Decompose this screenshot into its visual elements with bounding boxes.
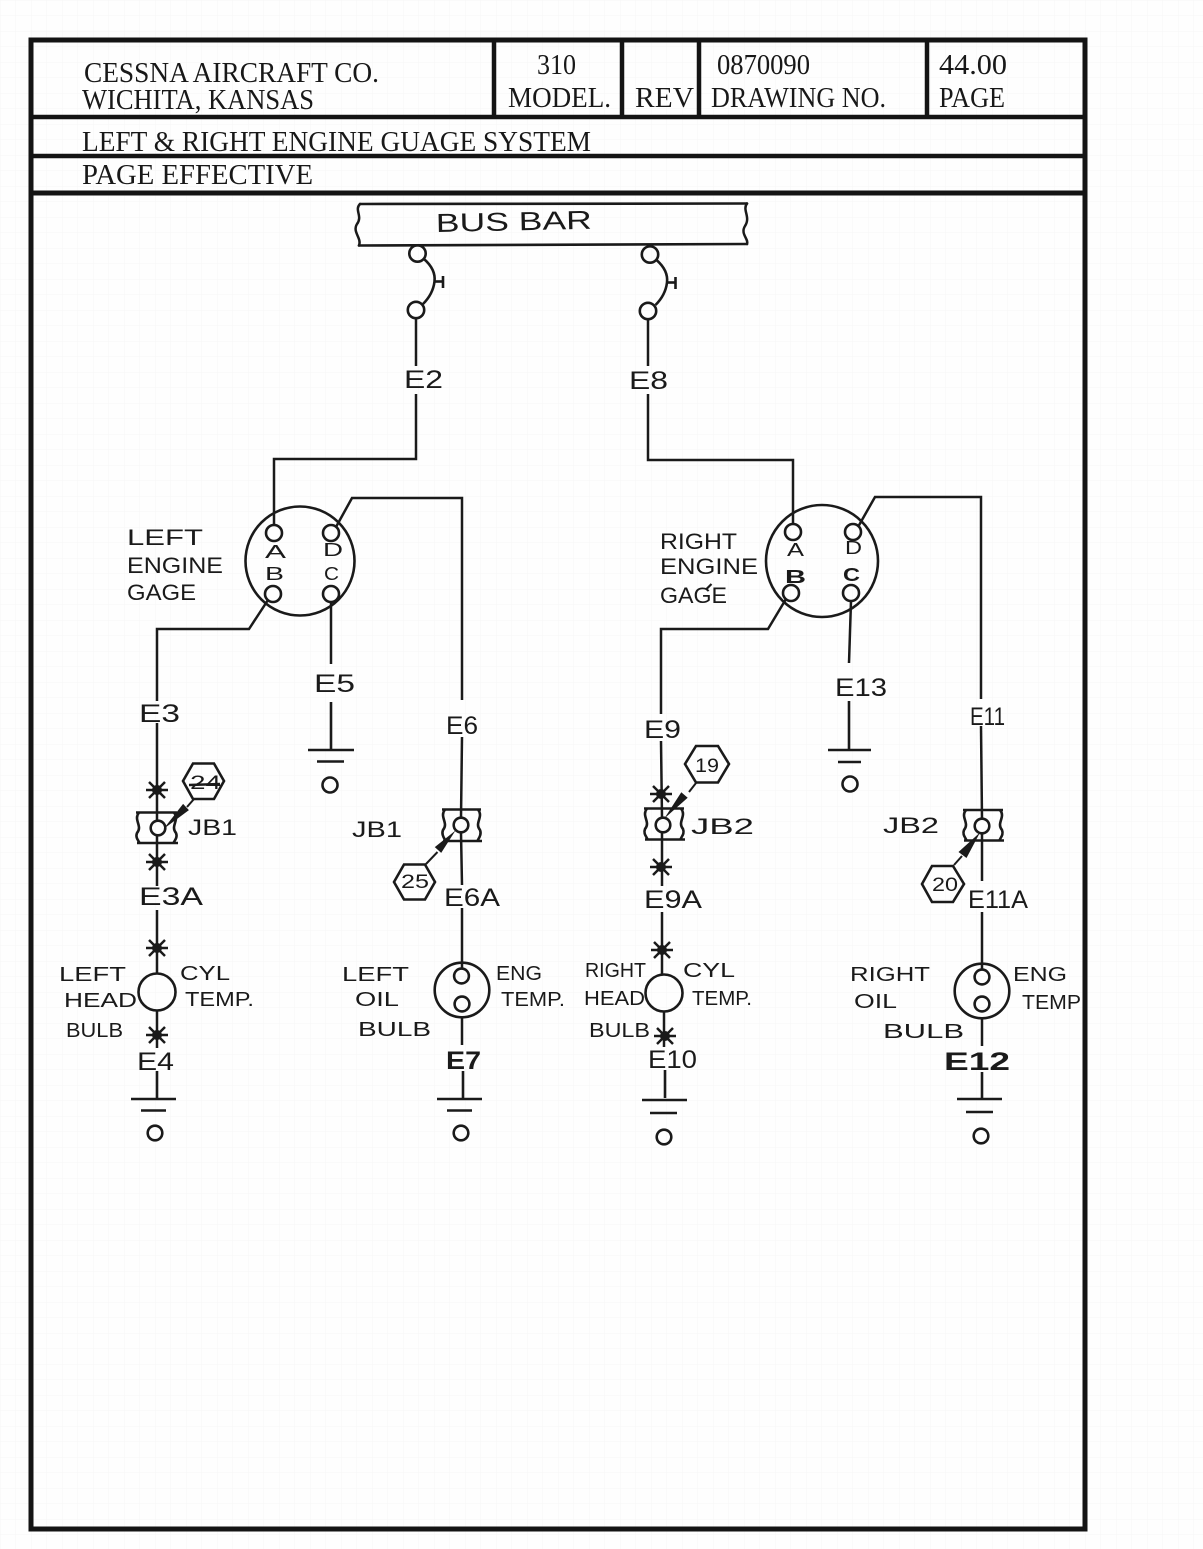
svg-text:E13: E13	[835, 674, 887, 702]
svg-text:TEMP: TEMP	[1022, 992, 1081, 1014]
svg-text:44.00: 44.00	[939, 50, 1007, 81]
svg-text:24: 24	[190, 773, 222, 794]
circuit breaker E8	[640, 246, 676, 319]
svg-text:GAGE: GAGE	[660, 583, 727, 608]
svg-text:PAGE EFFECTIVE: PAGE EFFECTIVE	[82, 160, 313, 191]
ground E13	[828, 701, 871, 792]
wire bulb to E4	[156, 1011, 159, 1048]
ground E5	[308, 702, 354, 793]
svg-text:E4: E4	[137, 1048, 174, 1076]
splice asterisk above right cyl bulb	[651, 942, 673, 958]
svg-text:E11A: E11A	[968, 886, 1028, 914]
wire B-pin left gauge to E3	[157, 600, 268, 701]
wire E6 to JB1	[461, 737, 462, 818]
svg-text:E8: E8	[629, 367, 668, 395]
svg-text:JB2: JB2	[883, 813, 939, 838]
wire JB2 to E9A	[661, 833, 664, 886]
title block text	[82, 50, 1007, 191]
pointer 19 to JB2	[689, 783, 696, 792]
svg-text:PAGE: PAGE	[939, 83, 1005, 114]
right oil bulb labels	[850, 964, 1081, 1043]
bulb left oil eng temp	[435, 963, 490, 1018]
ground E7	[437, 1071, 482, 1140]
left cyl bulb labels	[59, 963, 254, 1042]
wire E2 to pin A of left gauge	[274, 394, 416, 524]
wire E2 to label	[415, 318, 418, 366]
svg-text:25: 25	[401, 872, 429, 893]
wire B-pin right gauge to E9	[661, 599, 786, 714]
svg-text:LEFT & RIGHT ENGINE GUAGE SYST: LEFT & RIGHT ENGINE GUAGE SYSTEM	[82, 127, 591, 158]
ground E10	[642, 1070, 687, 1144]
svg-text:A: A	[265, 542, 286, 562]
svg-text:LEFT: LEFT	[59, 964, 126, 986]
svg-text:E5: E5	[314, 670, 355, 698]
junction block JB1 left	[136, 813, 178, 844]
svg-text:ENG: ENG	[496, 963, 542, 985]
svg-text:RIGHT: RIGHT	[850, 964, 930, 986]
svg-text:LEFT: LEFT	[127, 525, 203, 550]
wire E8 to label	[647, 319, 650, 366]
svg-text:E9: E9	[644, 716, 681, 744]
svg-text:19: 19	[695, 756, 719, 777]
ground E4	[131, 1071, 176, 1140]
pointer 25 to JB1 right	[426, 852, 438, 864]
splice asterisk on E3A upper	[146, 854, 168, 870]
pointer 20 to JB2 right	[954, 856, 962, 865]
splice asterisk below right cyl bulb	[654, 1028, 676, 1044]
svg-text:D: D	[323, 540, 343, 560]
svg-text:BULB: BULB	[66, 1020, 123, 1042]
svg-text:D: D	[845, 538, 862, 558]
splice asterisk above left bulb	[146, 940, 168, 956]
svg-text:ENGINE: ENGINE	[127, 553, 223, 578]
splice asterisk on E9	[650, 786, 672, 802]
svg-text:E11: E11	[970, 703, 1005, 731]
bulb right cyl head temp	[646, 975, 683, 1012]
splice asterisk below left bulb	[146, 1027, 168, 1043]
svg-text:OIL: OIL	[355, 989, 399, 1011]
hexagon callout 24	[183, 764, 224, 800]
svg-text:E6A: E6A	[444, 884, 500, 912]
wire bulb to E10	[663, 1012, 666, 1047]
wire bulb to E7	[461, 1017, 464, 1045]
wire bulb to E12	[981, 1017, 984, 1046]
svg-text:TEMP.: TEMP.	[185, 989, 254, 1011]
svg-text:REV: REV	[635, 83, 694, 114]
svg-text:CYL: CYL	[683, 960, 735, 982]
wire C-pin right gauge to E13	[849, 601, 851, 663]
svg-text:OIL: OIL	[854, 991, 897, 1013]
wire E9A to bulb	[661, 912, 664, 974]
wire E8 to pin A of right gauge	[648, 394, 793, 523]
left engine gauge U-L	[246, 507, 355, 616]
svg-text:RIGHT: RIGHT	[660, 529, 737, 554]
svg-text:BULB: BULB	[589, 1020, 650, 1042]
wire JB1 to E3A	[156, 836, 159, 886]
svg-text:20: 20	[932, 875, 958, 896]
wire C-pin left gauge to E5	[330, 602, 333, 664]
svg-text:B: B	[265, 564, 284, 584]
svg-text:E3A: E3A	[139, 883, 203, 911]
svg-text:E12: E12	[944, 1048, 1010, 1076]
wire E3 to JB1	[156, 723, 159, 821]
wire E3A to bulb	[156, 910, 159, 973]
bus bar	[356, 204, 748, 246]
svg-text:E9A: E9A	[644, 886, 702, 914]
svg-text:HEAD: HEAD	[584, 988, 645, 1010]
svg-text:E2: E2	[404, 366, 443, 394]
wire E11 to JB2	[981, 726, 982, 819]
bulb right oil eng temp	[955, 964, 1010, 1019]
svg-text:MODEL.: MODEL.	[508, 83, 611, 114]
svg-text:C: C	[324, 564, 339, 584]
wire JB1 to left oil bulb	[461, 833, 462, 968]
svg-text:BUS BAR: BUS BAR	[435, 205, 592, 238]
svg-text:BULB: BULB	[883, 1021, 964, 1043]
svg-text:E7: E7	[446, 1047, 481, 1075]
bulb left cyl head temp	[139, 974, 176, 1011]
hexagon callout 19	[685, 746, 729, 783]
junction block JB1 right	[442, 810, 482, 842]
wire D-pin right gauge to E11	[858, 497, 981, 699]
wire E9 to JB2	[661, 741, 662, 818]
svg-text:E3: E3	[139, 700, 180, 728]
svg-text:RIGHT: RIGHT	[585, 960, 646, 982]
right cyl bulb labels	[584, 960, 752, 1042]
svg-text:C: C	[843, 565, 860, 585]
svg-text:BULB: BULB	[358, 1019, 431, 1041]
svg-text:HEAD: HEAD	[64, 990, 137, 1012]
junction block JB2 right	[963, 810, 1004, 841]
left oil bulb labels	[342, 963, 565, 1041]
wire JB2 to right oil bulb	[981, 833, 984, 969]
svg-text:B: B	[785, 567, 806, 587]
svg-text:A: A	[787, 540, 804, 560]
circuit breaker E2	[408, 245, 443, 318]
pointer 24 to JB1	[187, 799, 194, 807]
svg-text:310: 310	[537, 50, 576, 81]
left gauge label	[127, 525, 223, 605]
svg-text:ENGINE: ENGINE	[660, 554, 758, 579]
svg-text:JB1: JB1	[188, 815, 237, 840]
right gauge pin letters	[785, 538, 862, 587]
right engine gauge U-R	[766, 505, 878, 617]
splice asterisk on E9A upper	[650, 859, 672, 875]
svg-text:JB1: JB1	[352, 817, 402, 842]
svg-text:TEMP.: TEMP.	[501, 989, 565, 1011]
right gauge label	[660, 529, 758, 608]
svg-text:E6: E6	[446, 712, 478, 740]
svg-text:TEMP.: TEMP.	[692, 988, 752, 1010]
svg-text:ENG: ENG	[1013, 964, 1067, 986]
svg-text:E10: E10	[648, 1046, 697, 1074]
wire D-pin left gauge to E6	[336, 498, 462, 700]
ground E12	[957, 1072, 1002, 1143]
hexagon callout 25	[394, 865, 435, 900]
splice asterisk on E3	[146, 782, 168, 798]
svg-text:JB2: JB2	[691, 814, 754, 839]
left gauge pin letters	[265, 540, 343, 584]
svg-text:WICHITA, KANSAS: WICHITA, KANSAS	[82, 85, 314, 116]
svg-text:GAGE: GAGE	[127, 580, 196, 605]
svg-text:CYL: CYL	[180, 963, 230, 985]
hexagon callout 20	[922, 866, 964, 902]
svg-text:0870090: 0870090	[717, 50, 810, 81]
svg-text:DRAWING NO.: DRAWING NO.	[711, 83, 886, 114]
svg-text:LEFT: LEFT	[342, 964, 409, 986]
junction block JB2 left	[644, 809, 685, 840]
